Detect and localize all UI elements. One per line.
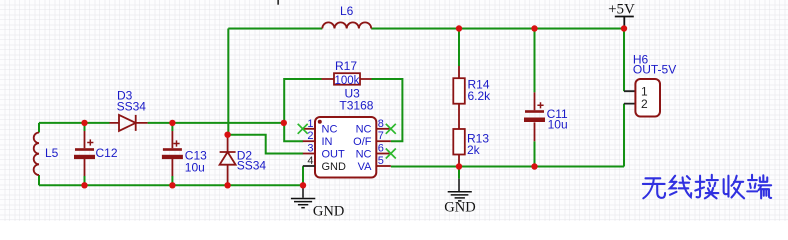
stray black tick top [277, 0, 279, 5]
char xian [670, 176, 691, 197]
junction node C13 top [169, 120, 175, 126]
svg-text:3: 3 [307, 143, 313, 155]
pin 8 NC [376, 128, 391, 130]
capacitor C11 [524, 92, 545, 141]
wire +5V flag to H6 pin1 [623, 29, 625, 92]
pin 2 IN [303, 140, 315, 142]
junction node pin2 branch [281, 120, 287, 126]
capacitor C13 [162, 131, 183, 176]
svg-text:IN: IN [322, 136, 333, 148]
junction node D2 top [224, 132, 230, 138]
IC U3 T3168 [315, 117, 376, 178]
wire C13 stubs [171, 123, 173, 185]
svg-text:VA: VA [358, 161, 373, 173]
svg-text:5: 5 [378, 155, 384, 167]
svg-text:GND: GND [444, 200, 475, 216]
char duan [747, 175, 771, 198]
wire R17 left to pin2 [284, 79, 321, 141]
svg-text:SS34: SS34 [237, 159, 267, 173]
resistor R14 [453, 66, 465, 129]
svg-text:6.2k: 6.2k [468, 89, 492, 103]
char wu [643, 178, 665, 198]
svg-text:2k: 2k [467, 143, 481, 157]
junction node C11 top rail [531, 25, 537, 31]
svg-text:GND: GND [313, 204, 344, 220]
svg-text:7: 7 [378, 130, 384, 142]
ground symbol at R13 [448, 179, 472, 201]
char jie [695, 175, 718, 198]
svg-text:2: 2 [641, 97, 648, 111]
svg-text:10u: 10u [548, 118, 568, 132]
wire top rail +5V net [228, 28, 624, 30]
wire R17 right to pin7 [372, 79, 403, 141]
power flag +5V [608, 2, 635, 29]
no-connect X pin6 [386, 149, 396, 159]
ground symbol at U3 pin4 [291, 185, 315, 207]
junction node C13 bottom [169, 182, 175, 188]
annotation chinese text 无线接收端 [643, 175, 771, 198]
svg-text:6: 6 [378, 143, 384, 155]
resistor R17 [322, 73, 372, 85]
svg-text:1: 1 [307, 118, 313, 130]
svg-text:O/F: O/F [353, 136, 372, 148]
svg-text:8: 8 [378, 118, 384, 130]
junction node C12 top [81, 120, 87, 126]
pin 1 NC [303, 128, 315, 130]
pin 6 NC [376, 153, 391, 155]
svg-text:+5V: +5V [608, 2, 635, 18]
svg-text:C12: C12 [96, 146, 118, 160]
junction node R14 top rail [456, 25, 462, 31]
wire left vertical L5 stubs [38, 123, 40, 185]
char shou [724, 176, 744, 199]
junction node D2 bottom [224, 182, 230, 188]
junction node +5V [621, 25, 627, 31]
junction node C11 bottom [531, 163, 537, 169]
wire pin4 to ground [302, 166, 304, 185]
wire R13 bottom to ground [458, 167, 460, 179]
resistor R13 [453, 129, 465, 167]
junction node R13 bottom [456, 163, 462, 169]
wire D2 top to pin3 [228, 135, 304, 154]
svg-text:NC: NC [322, 124, 338, 136]
svg-text:L5: L5 [45, 146, 59, 160]
svg-text:GND: GND [322, 161, 347, 173]
wire bottom rail GND net [39, 184, 303, 186]
diode D3 [110, 115, 148, 131]
svg-text:4: 4 [307, 155, 313, 167]
wire C12 stubs [84, 123, 86, 185]
capacitor C12 [74, 131, 95, 176]
inductor L5 [34, 133, 39, 176]
no-connect X pin8 [386, 124, 396, 134]
svg-text:OUT: OUT [322, 148, 346, 160]
svg-text:T3168: T3168 [339, 99, 373, 113]
svg-text:100k: 100k [335, 75, 360, 87]
svg-text:SS34: SS34 [117, 100, 147, 114]
svg-text:R17: R17 [335, 59, 357, 73]
junction node C12 bottom [81, 182, 87, 188]
diode D2 [220, 135, 236, 185]
wire vertical from top rail to D2 [227, 29, 229, 135]
pin 7 O/F [376, 140, 391, 142]
no-connect X pin1 [298, 124, 308, 134]
svg-text:NC: NC [356, 148, 372, 160]
svg-text:10u: 10u [185, 161, 205, 175]
wire left top rail [39, 122, 284, 124]
connector H6 OUT-5V [624, 79, 660, 117]
pin 3 OUT [303, 153, 315, 155]
wire pin5 VA bottom rail [391, 104, 624, 167]
wire C11 stubs [534, 29, 536, 167]
wire R14 top [458, 29, 460, 67]
svg-text:2: 2 [307, 130, 313, 142]
svg-text:OUT-5V: OUT-5V [633, 63, 676, 77]
pin 5 VA [376, 165, 391, 167]
pin 4 GND [303, 165, 315, 167]
inductor L6 [322, 22, 371, 28]
svg-text:L6: L6 [340, 4, 354, 18]
svg-text:NC: NC [356, 124, 372, 136]
junction node GND pin4 [300, 182, 306, 188]
